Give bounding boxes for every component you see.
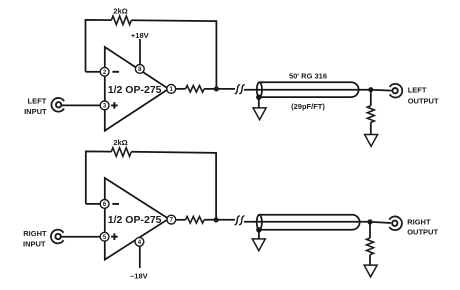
- wire: series resistor to cable break: [204, 88, 235, 90]
- wire: termination resistor to ground (bottom): [369, 255, 371, 266]
- cable break mark 1 (bottom): [235, 216, 239, 225]
- wire: center conductor through coax to output node (bottom): [244, 222, 391, 223]
- wire: output node down to termination resistor (bottom): [369, 222, 371, 238]
- cable break mark 2: [240, 85, 244, 94]
- wire: feedback top rail right segment and vertical down to output node: [131, 20, 216, 86]
- cable break mark 1: [235, 85, 239, 94]
- wire: feedback left vertical from pin 6 up to top rail: [86, 151, 111, 204]
- label RIGHT INPUT: [23, 229, 47, 249]
- junction node: cable output: [368, 87, 373, 92]
- svg-text:LEFT: LEFT: [28, 97, 47, 106]
- pin 1 (output): [167, 84, 176, 93]
- wire: input jack to pin 5: [61, 236, 100, 238]
- svg-text:50′ RG 316: 50′ RG 316: [289, 71, 327, 80]
- cable break mark 2 (bottom): [240, 216, 244, 225]
- wire: pin 7 to series resistor: [176, 219, 186, 221]
- svg-text:INPUT: INPUT: [23, 239, 46, 248]
- input jack J1 LEFT INPUT: [51, 98, 64, 112]
- junction node: feedback tap: [214, 86, 219, 91]
- wire: input jack to pin 3: [62, 104, 101, 106]
- svg-text:2kΩ: 2kΩ: [113, 6, 127, 15]
- wire: pin 6 to feedback vertical: [86, 203, 101, 205]
- svg-text:LEFT: LEFT: [408, 86, 427, 95]
- wire: pin 2 to feedback vertical: [86, 71, 101, 73]
- ground symbol (termination, top circuit): [365, 135, 378, 147]
- op-amp U2 triangle 1/2 OP-275: [105, 178, 169, 260]
- resistor R4 2k ohm feedback (bottom): [111, 148, 131, 157]
- junction node: feedback tap (bottom): [214, 217, 219, 222]
- wire: shield dot to ground (bottom): [258, 230, 260, 239]
- wire: feedback top rail right segment and vertical down to output node: [131, 152, 216, 218]
- svg-text:OUTPUT: OUTPUT: [407, 228, 438, 237]
- pin 2 (inverting input): [100, 67, 109, 76]
- wire: pin 4 down to -18V supply: [139, 246, 141, 268]
- resistor R6 termination (bottom): [367, 238, 374, 255]
- minus sign at pin 2: [112, 71, 119, 73]
- wire: series resistor to cable break: [204, 219, 235, 221]
- wire: feedback left vertical from pin 2 up to top rail: [86, 20, 112, 72]
- svg-text:1/2 OP-275: 1/2 OP-275: [108, 214, 162, 226]
- label LEFT OUTPUT: [408, 86, 439, 106]
- coax cable W1 body (50ft RG 316): [257, 82, 359, 97]
- junction: shield to ground dot (bottom): [256, 227, 261, 232]
- wire: +18V supply to pin 8: [139, 39, 141, 65]
- minus sign at pin 6: [112, 203, 119, 205]
- label RIGHT OUTPUT: [407, 218, 438, 237]
- svg-text:(29pF/FT): (29pF/FT): [291, 102, 325, 111]
- resistor R2 series output: [186, 86, 204, 93]
- resistor R1 2k ohm feedback (top): [111, 16, 131, 25]
- svg-text:1: 1: [170, 86, 174, 93]
- plus sign at pin 3: [111, 102, 118, 109]
- ground symbol (cable shield, top circuit): [253, 108, 266, 120]
- pin 3 (non-inverting input): [100, 101, 109, 110]
- output jack J4 RIGHT OUTPUT: [389, 216, 402, 230]
- ground symbol (termination, bottom circuit): [364, 265, 377, 277]
- junction: shield to ground dot: [256, 95, 261, 100]
- svg-text:4: 4: [138, 239, 142, 246]
- wire: center conductor through coax to output node: [244, 89, 392, 92]
- svg-text:RIGHT: RIGHT: [407, 218, 431, 227]
- label LEFT INPUT: [24, 97, 47, 117]
- svg-text:+18V: +18V: [131, 31, 149, 40]
- input jack J3 RIGHT INPUT: [51, 230, 64, 244]
- pin 8 (V+ supply): [135, 65, 144, 74]
- svg-text:2kΩ: 2kΩ: [113, 138, 127, 147]
- svg-text:RIGHT: RIGHT: [23, 229, 47, 238]
- pin 6 (inverting input): [100, 200, 109, 209]
- output jack J2 LEFT OUTPUT: [390, 84, 403, 98]
- wire: output node down to termination resistor: [370, 90, 372, 106]
- resistor R5 series output: [186, 217, 204, 224]
- wire: termination resistor to ground: [370, 122, 372, 134]
- pin 5 (non-inverting input): [100, 232, 109, 241]
- wire: pin 1 to series resistor: [176, 88, 186, 90]
- pin 4 (V- supply): [135, 237, 144, 246]
- svg-text:–18V: –18V: [130, 271, 148, 280]
- wire: shield dot to ground: [258, 97, 260, 108]
- op-amp U1 triangle 1/2 OP-275: [105, 47, 169, 131]
- pin 7 (output): [167, 215, 176, 224]
- svg-text:OUTPUT: OUTPUT: [408, 96, 439, 105]
- svg-text:INPUT: INPUT: [24, 107, 47, 116]
- junction node: cable output (bottom): [367, 219, 372, 224]
- ground symbol (cable shield, bottom circuit): [252, 239, 265, 251]
- coax cable W2 body: [257, 215, 360, 230]
- plus sign at pin 5: [111, 233, 118, 240]
- svg-text:1/2 OP-275: 1/2 OP-275: [108, 84, 162, 96]
- resistor R3 termination (top): [367, 106, 374, 123]
